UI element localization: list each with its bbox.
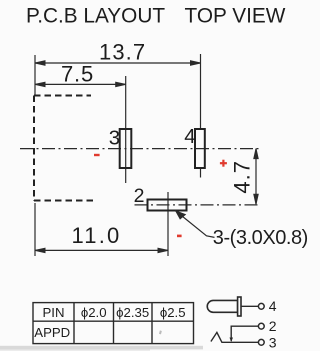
extension line pad3 center lower stub [125, 148, 127, 183]
extension line pad3 center (x=125.7) upper [125, 76, 127, 148]
svg-text:11.0: 11.0 [72, 223, 122, 248]
terminal circle 2 [258, 323, 264, 329]
extension line pad2 center (x=168) [167, 192, 169, 256]
svg-text:3: 3 [109, 127, 120, 150]
dimension 7.5 line [35, 82, 126, 86]
red minus mark near pad 3 [94, 154, 100, 156]
dashed component outline left edge [33, 96, 35, 202]
leader line to pad 2 [176, 211, 215, 237]
centerline horizontal through pads 3 and 4 [20, 148, 259, 150]
table frame [33, 303, 194, 344]
dimension 11.0 line [35, 248, 168, 252]
svg-text:4: 4 [269, 298, 277, 314]
svg-text:13.7: 13.7 [99, 39, 146, 64]
dimension 4.7 vertical line [254, 149, 258, 205]
dimension 13.7 line [35, 61, 201, 65]
terminal circle 3 [258, 339, 264, 345]
svg-text:4: 4 [184, 125, 195, 148]
extension line bottom-left (x=35) for dim 11.0 [34, 203, 36, 256]
centerline horizontal through pad 2 [135, 204, 260, 206]
svg-text:2: 2 [134, 185, 145, 207]
extension line left (x=35) for dims 13.7 / 7.5 [34, 55, 36, 95]
red plus mark near pad 4 [220, 160, 227, 167]
svg-text:P.C.B LAYOUT: P.C.B LAYOUT [26, 5, 165, 28]
tip spring contact and wire to terminal 3 [211, 332, 259, 342]
junction arrow on pin 3 wire [230, 338, 234, 343]
jack plug tip symbol [207, 297, 241, 316]
faint mark in empty cell [159, 330, 162, 334]
svg-text:ϕ2.5: ϕ2.5 [160, 305, 186, 320]
pad 2 [148, 200, 187, 211]
pad 4 [195, 129, 205, 168]
svg-text:7.5: 7.5 [61, 62, 94, 87]
svg-text:ϕ2.0: ϕ2.0 [81, 305, 107, 320]
extension line pad4 center (x=200.5) [200, 54, 202, 129]
svg-text:3-(3.0X0.8): 3-(3.0X0.8) [213, 227, 308, 249]
terminal circle 4 [258, 303, 264, 309]
svg-text:APPD: APPD [34, 325, 70, 340]
svg-text:TOP VIEW: TOP VIEW [185, 5, 286, 28]
svg-text:2: 2 [269, 318, 277, 334]
wire to terminal 2 [231, 326, 258, 341]
pad 3 [120, 129, 132, 168]
dashed component outline bottom edge [34, 200, 95, 202]
dashed component outline top edge [34, 95, 91, 97]
red minus mark near leader [177, 235, 182, 238]
title P.C.B LAYOUT TOP VIEW [26, 5, 286, 28]
scan shadow bottom [0, 346, 203, 350]
svg-text:3: 3 [269, 334, 277, 350]
svg-text:PIN: PIN [43, 305, 65, 320]
extension line pad4 center lower stub [200, 168, 202, 178]
wire to terminal 4 [241, 305, 258, 307]
svg-text:ϕ2.35: ϕ2.35 [116, 305, 149, 320]
svg-text:4.7: 4.7 [229, 160, 254, 194]
